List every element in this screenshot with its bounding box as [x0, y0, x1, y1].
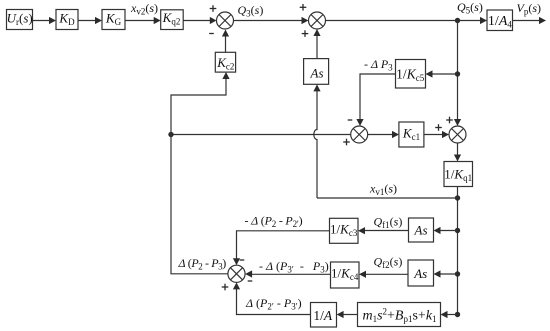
wire Kc2 to S1: [222, 30, 229, 53]
summing junction S4: [449, 126, 466, 143]
svg-text:- Δ P3: - Δ P3: [364, 57, 393, 73]
block As f1: [409, 218, 434, 242]
block 1/A4: [487, 10, 513, 31]
block Ur(s): [7, 10, 33, 30]
summing junction S1: [217, 12, 234, 29]
svg-text:Δ (P2′ - P3′): Δ (P2′ - P3′): [245, 296, 302, 312]
block 1/Kc4: [331, 262, 360, 288]
summing junction S5: [228, 265, 245, 282]
block 1/A: [311, 303, 337, 328]
svg-text:Δ (P2 - P3): Δ (P2 - P3): [178, 256, 227, 272]
wire 1/A to S5 bottom: [233, 282, 311, 314]
wire KD to KG: [78, 17, 102, 24]
sign plus S1: [210, 5, 217, 12]
wire Kq2 to S1: [183, 17, 216, 24]
wire S1 to S2: [234, 17, 309, 24]
sign plus S5 bottom: [222, 284, 229, 291]
wire 1/Kc3 to S5 top: [233, 231, 330, 265]
block KG: [102, 10, 125, 30]
node load tap: [455, 312, 460, 317]
summing junction S3: [351, 126, 368, 143]
sign minus S5 top: [240, 259, 245, 261]
node 1/Kc5 tap: [455, 71, 460, 76]
svg-text:As: As: [413, 266, 427, 281]
svg-text:- Δ (P2 - P2′): - Δ (P2 - P2′): [245, 214, 303, 230]
wire spine to load box: [441, 311, 458, 318]
wire Q5 node down to S4: [454, 21, 461, 127]
sign minus S1: [209, 33, 214, 35]
sign plus S2 top: [300, 4, 307, 11]
wire load to 1/A: [337, 311, 358, 318]
wire Kc1 to S4: [424, 131, 449, 138]
sign plus S3: [343, 139, 350, 146]
wire xv1 up to As: [313, 84, 320, 198]
sign plus S2 bottom: [302, 30, 309, 37]
wire xv1 horizontal: [317, 197, 458, 199]
wire spine to As f2: [434, 270, 458, 277]
wire 1/Kc5 to S3: [356, 74, 395, 126]
node xv1: [455, 195, 460, 200]
wire S3 to Kc1: [368, 131, 399, 138]
block As f2: [408, 260, 434, 286]
svg-text:Vp(s): Vp(s): [517, 1, 542, 17]
svg-text:1/A: 1/A: [313, 308, 333, 323]
wire Ur to KD: [33, 17, 57, 24]
wire S4 to 1/Kq1: [454, 143, 461, 162]
block 1/Kc3: [330, 218, 359, 243]
block As upper: [304, 59, 329, 85]
svg-text:Q3(s): Q3(s): [238, 3, 264, 19]
sign plus S4 top: [446, 117, 453, 124]
wire KG to Kq2: [125, 17, 161, 24]
block Kq2: [161, 10, 184, 30]
svg-text:Qf2(s): Qf2(s): [374, 255, 403, 271]
wire long feedback line to S3 with hop: [171, 134, 351, 136]
block 1/Kq1: [444, 162, 473, 187]
svg-text:Qf1(s): Qf1(s): [374, 215, 403, 231]
wire 1/Kc4 to S5 right: [245, 270, 330, 277]
svg-text:As: As: [310, 65, 324, 80]
wire As f1 to 1/Kc3: [358, 227, 409, 234]
svg-text:As: As: [414, 223, 428, 238]
wire As to S2: [313, 29, 320, 59]
wire feedback node up to Kc2: [171, 72, 230, 135]
wire spine to As f1: [434, 227, 458, 234]
node Q5: [455, 18, 460, 23]
svg-text:Q5(s): Q5(s): [457, 0, 483, 16]
wire As f2 to 1/Kc4: [359, 271, 408, 278]
node feedback branch: [168, 132, 173, 137]
wire 1/A4 to output Vp: [513, 17, 547, 24]
sign minus S5 right: [248, 280, 253, 282]
block Kc1: [399, 122, 424, 147]
svg-text:xv1(s): xv1(s): [369, 182, 397, 198]
wire node to 1/Kc5: [426, 70, 458, 77]
wire S2 to 1/A4: [326, 17, 488, 24]
svg-text:- Δ (P3′ - P3): - Δ (P3′ - P3): [259, 259, 329, 275]
summing junction S2: [309, 12, 326, 29]
sign minus S3: [348, 119, 353, 121]
block KD: [56, 10, 78, 30]
sign plus S4 left: [435, 124, 442, 131]
block 1/Kc5: [396, 60, 426, 89]
node Qf2 tap: [455, 271, 460, 276]
wire 1/Kq1 down the spine: [457, 187, 459, 315]
wire S5 output up to feedback node: [171, 135, 228, 274]
svg-text:xv2(s): xv2(s): [130, 1, 158, 17]
svg-text:Ur(s): Ur(s): [7, 10, 33, 27]
block load m1s2+Bp1s+k1: [358, 303, 441, 327]
node Qf1 tap: [455, 228, 460, 233]
block Kc2: [215, 52, 235, 72]
